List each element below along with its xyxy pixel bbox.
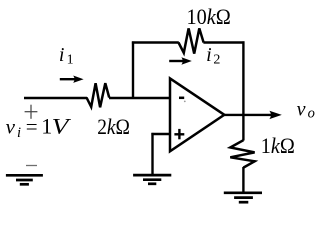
label + (source positive terminal): [25, 105, 38, 119]
svg-text:=: =: [26, 115, 38, 139]
label 10kOhm: [187, 4, 231, 29]
svg-text:1: 1: [67, 53, 74, 68]
wire: resistor 1k to ground: [242, 167, 244, 192]
label - (source negative terminal): [26, 165, 37, 167]
current arrow i1: [60, 76, 84, 83]
label 2kOhm: [97, 114, 130, 139]
label i1 (current annotation): [59, 44, 74, 68]
wire: feedback top left segment: [132, 41, 179, 43]
op-amp inverting input symbol (-): [179, 97, 184, 100]
svg-text:i: i: [17, 125, 21, 141]
resistor R1 2kOhm: [87, 83, 110, 107]
svg-text:v: v: [297, 98, 306, 120]
label 1kOhm: [261, 133, 295, 158]
svg-text:2kΩ: 2kΩ: [97, 114, 130, 139]
wire: feedback right vertical down through output node to resistor 1k: [242, 41, 244, 140]
current arrow i2: [169, 57, 192, 65]
svg-text:2: 2: [213, 53, 220, 68]
wire: op-amp output to vo arrow: [224, 111, 282, 119]
ground: left (source negative): [6, 175, 43, 184]
resistor R3 1kOhm (load): [230, 140, 254, 167]
wire: feedback top right segment: [203, 41, 244, 43]
svg-text:10kΩ: 10kΩ: [187, 4, 231, 29]
wire: source positive terminal to resistor 2k: [24, 97, 87, 99]
svg-text:i: i: [59, 44, 65, 66]
op-amp non-inverting input symbol (+): [174, 129, 184, 139]
ground: right (load): [224, 193, 262, 202]
artifact dot near inverting symbol: [184, 101, 186, 103]
svg-text:i: i: [206, 44, 212, 66]
svg-text:1: 1: [41, 114, 52, 139]
label i2 (current annotation): [206, 44, 220, 68]
wire: feedback left vertical: [132, 41, 134, 98]
wire: non-inverting input to ground (horizontal + vertical): [151, 133, 169, 175]
label vi = 1V: [6, 114, 72, 141]
op-amp U1: [170, 78, 224, 151]
wire: resistor 2k to op-amp inverting input (node with feedback tap): [109, 97, 170, 99]
resistor R2 10kOhm (feedback): [179, 28, 204, 53]
svg-text:v: v: [6, 115, 16, 139]
svg-text:o: o: [308, 106, 315, 122]
ground: middle (non-inverting input): [133, 175, 171, 184]
label vo: [297, 98, 315, 121]
svg-text:1kΩ: 1kΩ: [261, 133, 295, 158]
